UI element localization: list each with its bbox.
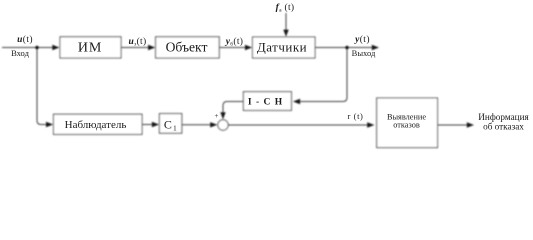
svg-text:Вход: Вход [11,48,29,58]
arrowhead into C1 [152,122,159,127]
arrowhead into Sensors [245,45,252,50]
svg-text:Объект: Объект [166,40,208,55]
wire I-CH to summer [223,102,243,114]
wire IM to Object [121,47,149,49]
wire sensors output [315,47,373,49]
wire detection output [438,124,468,126]
arrowhead into IM [52,45,59,50]
node input junction [35,46,39,50]
svg-text:отказов: отказов [393,121,420,130]
svg-text:и(t): и(t) [17,34,33,45]
arrowhead final output [467,122,474,127]
wire C1 to summer [182,124,211,126]
svg-text:r (t): r (t) [348,111,364,121]
svg-text:Датчики: Датчики [257,40,307,55]
arrowhead f into sensors top [283,30,288,37]
wire f fault input [285,13,287,31]
svg-text:Выход: Выход [352,48,376,58]
block Object [156,37,220,58]
block IM [60,37,121,58]
arrowhead into detection block [367,122,374,127]
svg-text:у(t): у(t) [354,34,370,45]
block I-CH [243,92,291,111]
summer circle [218,120,228,130]
wire Object to Sensors [219,47,246,49]
block fault detection [377,98,438,148]
svg-text:из(t): из(t) [129,36,147,48]
wire summer to detection block [228,124,368,126]
svg-text:I - С Н: I - С Н [248,98,283,108]
wire input junction down to observer [37,48,47,125]
wire input [2,47,54,49]
svg-text:Наблюдатель: Наблюдатель [65,119,127,131]
arrowhead system output [372,45,379,50]
wire output junction down to I-CH [299,48,347,102]
arrowhead into I-CH right side [293,99,300,104]
arrowhead into summer left [210,122,217,127]
arrowhead into summer top [220,112,225,119]
svg-text:уб(t): уб(t) [225,36,244,48]
svg-text:Информация: Информация [478,112,529,122]
svg-text:+: + [215,112,219,120]
block Observer [54,114,143,134]
block Sensors [253,37,316,58]
svg-text:ИМ: ИМ [78,41,102,56]
wire observer to C1 [142,124,153,126]
block C1 [159,114,181,134]
arrowhead into observer [46,122,53,127]
svg-text:об отказах: об отказах [483,122,524,132]
node output junction [345,46,349,50]
arrowhead into Object [148,45,155,50]
svg-text:fа (t): fа (t) [276,2,295,14]
